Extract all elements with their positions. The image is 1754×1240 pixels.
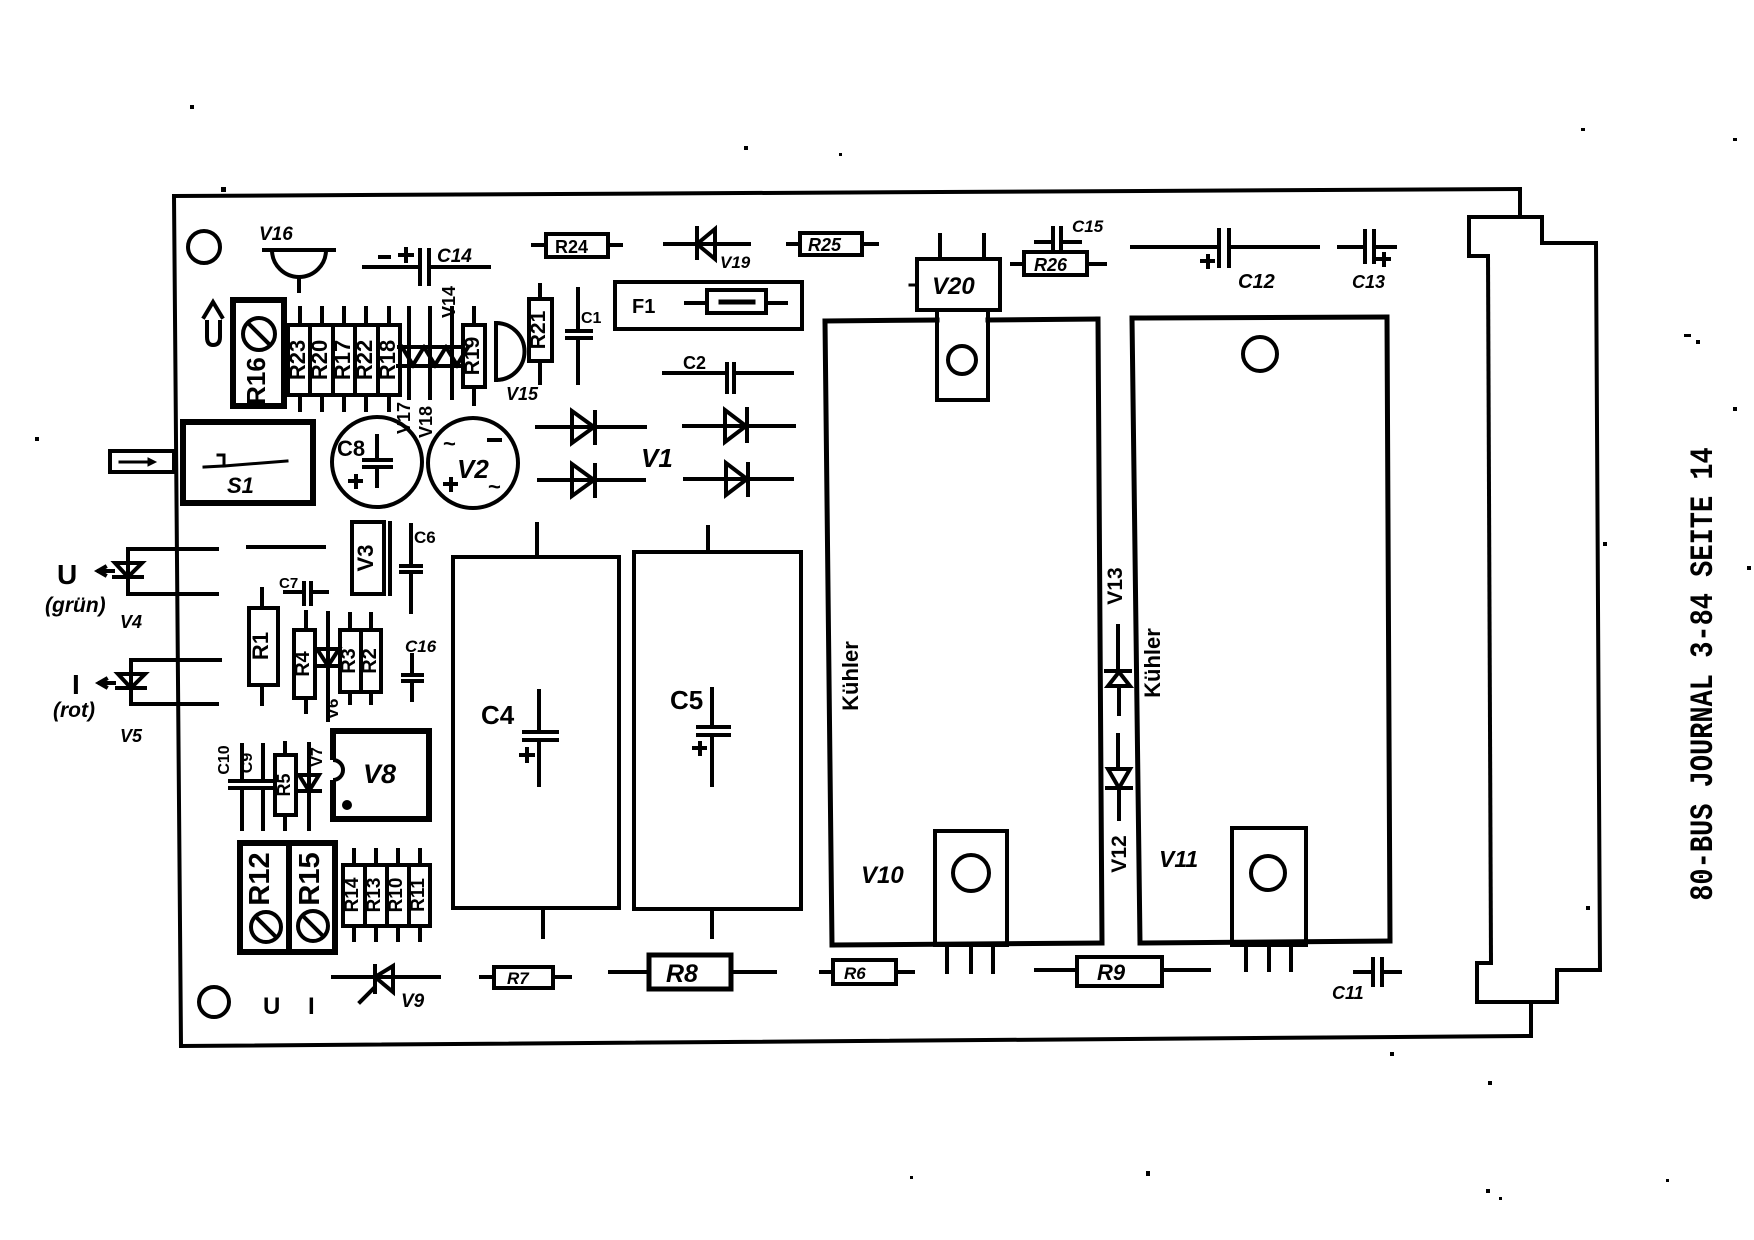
svg-text:I: I: [308, 993, 315, 1020]
svg-text:R13: R13: [364, 878, 385, 913]
svg-text:R22: R22: [352, 340, 377, 380]
svg-text:R25: R25: [808, 235, 842, 255]
svg-text:C10: C10: [216, 745, 233, 774]
svg-text:R4: R4: [292, 650, 314, 676]
svg-text:V6: V6: [323, 699, 342, 720]
svg-text:V17: V17: [394, 402, 414, 434]
svg-text:V3: V3: [353, 545, 378, 572]
svg-text:C4: C4: [481, 700, 515, 730]
svg-text:C5: C5: [670, 685, 703, 715]
svg-text:R8: R8: [666, 960, 698, 988]
svg-text:V14: V14: [439, 286, 459, 318]
svg-text:C13: C13: [1352, 272, 1385, 292]
svg-text:C14: C14: [437, 246, 472, 267]
svg-text:U: U: [263, 993, 280, 1020]
svg-text:V11: V11: [1159, 846, 1198, 872]
svg-text:F1: F1: [632, 296, 655, 318]
svg-text:Kühler: Kühler: [1140, 628, 1165, 698]
svg-text:V19: V19: [720, 253, 751, 272]
svg-text:V13: V13: [1104, 567, 1127, 604]
svg-text:C1: C1: [581, 310, 602, 327]
svg-text:R3: R3: [338, 648, 360, 674]
svg-text:V18: V18: [416, 406, 436, 438]
svg-text:C15: C15: [1072, 217, 1104, 236]
svg-text:R9: R9: [1097, 960, 1126, 985]
svg-text:V4: V4: [120, 612, 142, 632]
svg-text:~: ~: [443, 431, 456, 456]
svg-text:R5: R5: [274, 773, 294, 796]
svg-text:Kühler: Kühler: [838, 641, 863, 711]
svg-text:R6: R6: [844, 964, 866, 983]
svg-text:V20: V20: [932, 273, 975, 300]
svg-text:V15: V15: [506, 384, 539, 404]
svg-text:(rot): (rot): [53, 699, 95, 722]
svg-text:R18: R18: [375, 340, 400, 380]
svg-text:R2: R2: [359, 648, 381, 674]
svg-text:S1: S1: [227, 473, 254, 498]
svg-text:V9: V9: [401, 991, 425, 1012]
svg-text:R12: R12: [244, 852, 276, 905]
svg-text:V1: V1: [641, 443, 673, 473]
svg-text:C2: C2: [683, 353, 706, 373]
svg-text:R20: R20: [307, 340, 332, 380]
svg-text:C9: C9: [239, 753, 256, 774]
svg-text:V8: V8: [363, 759, 396, 789]
svg-text:R21: R21: [527, 310, 550, 349]
svg-text:(grün): (grün): [45, 594, 106, 617]
svg-text:R16: R16: [241, 357, 271, 405]
svg-text:C16: C16: [405, 637, 437, 656]
svg-text:R26: R26: [1034, 255, 1068, 275]
svg-text:R11: R11: [408, 878, 429, 912]
svg-text:V16: V16: [259, 224, 293, 245]
svg-text:I: I: [72, 669, 80, 700]
svg-text:R7: R7: [507, 969, 530, 988]
svg-text:V5: V5: [120, 726, 143, 746]
svg-text:V2: V2: [457, 454, 489, 484]
svg-text:V12: V12: [1108, 835, 1131, 872]
svg-text:R15: R15: [294, 852, 326, 905]
svg-text:~: ~: [488, 474, 501, 499]
svg-text:R1: R1: [248, 632, 273, 660]
svg-text:V7: V7: [309, 747, 326, 767]
svg-text:C11: C11: [1332, 983, 1364, 1003]
svg-text:R19: R19: [461, 337, 484, 376]
svg-text:C12: C12: [1238, 271, 1275, 293]
svg-text:C8: C8: [337, 436, 365, 461]
svg-text:80-BUS JOURNAL 3-84 SEITE 14: 80-BUS JOURNAL 3-84 SEITE 14: [1685, 447, 1722, 901]
svg-text:C7: C7: [279, 575, 298, 592]
svg-text:U: U: [57, 559, 77, 590]
svg-text:R14: R14: [342, 877, 363, 912]
svg-text:R10: R10: [386, 878, 407, 913]
svg-text:V10: V10: [861, 862, 904, 889]
svg-text:R24: R24: [555, 237, 588, 257]
svg-text:C6: C6: [414, 528, 436, 547]
